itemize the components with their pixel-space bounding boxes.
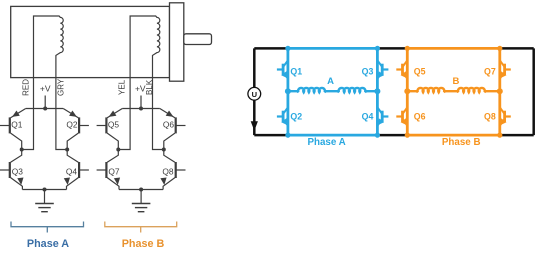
- transistor Q3: [381, 64, 384, 76]
- svg-text:Phase A: Phase A: [27, 238, 69, 250]
- inductor A: [288, 90, 298, 92]
- transistor Q6: [401, 111, 404, 123]
- wire black bottom-left: [254, 134, 288, 137]
- node B-right: [497, 88, 503, 94]
- wire black top-right: [500, 47, 534, 50]
- winding phase A (motor coil): [34, 16, 64, 78]
- svg-text:Q4: Q4: [362, 112, 374, 122]
- svg-text:Q7: Q7: [484, 67, 496, 77]
- transistor Q1: [9, 117, 11, 133]
- node A-left: [20, 148, 24, 152]
- bridge Phase A frame: [288, 48, 378, 135]
- svg-text:Q3: Q3: [362, 67, 374, 77]
- wire RED to node: [22, 78, 34, 150]
- wire black bottom-right: [500, 134, 534, 137]
- current direction arrow: [251, 121, 258, 131]
- ground phase A: [22, 190, 66, 204]
- svg-text:Q2: Q2: [66, 119, 78, 129]
- bridge Phase B frame: [407, 48, 500, 135]
- stepper motor body: [11, 6, 170, 77]
- svg-text:Q3: Q3: [12, 166, 24, 176]
- +V rail phase A: [26, 96, 64, 109]
- svg-text:Q8: Q8: [162, 166, 174, 176]
- svg-text:B: B: [452, 76, 459, 87]
- svg-text:GRY: GRY: [57, 78, 66, 96]
- transistor Q8: [175, 162, 177, 178]
- wire black left side: [253, 48, 256, 135]
- brace phase A: [11, 222, 84, 233]
- transistor Q8: [503, 111, 506, 123]
- transistor Q3: [9, 162, 11, 178]
- svg-text:Phase B: Phase B: [442, 137, 481, 148]
- transistor Q5: [401, 64, 404, 76]
- motor end cap: [170, 3, 184, 81]
- node B-right: [162, 148, 166, 152]
- transistor Q4: [381, 111, 384, 123]
- svg-text:A: A: [327, 76, 334, 87]
- voltage source U: [248, 87, 261, 100]
- corner nodes bridge Phase B: [405, 46, 410, 51]
- transistor Q7: [503, 64, 506, 76]
- wire black right side: [532, 48, 535, 135]
- ground phase B: [119, 190, 163, 204]
- wire black top-middle: [377, 47, 407, 50]
- svg-text:U: U: [252, 90, 257, 99]
- transistor Q4: [78, 162, 80, 178]
- node B-left: [404, 88, 410, 94]
- corner nodes bridge Phase A: [285, 46, 290, 51]
- svg-text:RED: RED: [22, 79, 31, 96]
- transistor Q7: [105, 162, 107, 178]
- wire BLK to node: [153, 78, 164, 150]
- node A-right: [65, 148, 69, 152]
- wire black top-left: [254, 47, 288, 50]
- +V rail phase B: [122, 96, 160, 109]
- wire GRY to node: [56, 78, 67, 150]
- motor shaft: [184, 34, 212, 45]
- svg-text:+V: +V: [135, 84, 146, 94]
- svg-text:YEL: YEL: [117, 79, 126, 95]
- svg-text:Q8: Q8: [484, 112, 496, 122]
- svg-text:Q2: Q2: [290, 112, 302, 122]
- node B-left: [116, 148, 120, 152]
- wire black bottom-middle: [377, 134, 407, 137]
- node A-left: [285, 88, 291, 94]
- svg-text:Phase A: Phase A: [307, 137, 345, 148]
- svg-text:Q4: Q4: [66, 166, 78, 176]
- winding phase B (motor coil): [130, 16, 160, 78]
- brace phase B: [105, 222, 177, 233]
- svg-text:Q7: Q7: [108, 166, 120, 176]
- transistor Q2: [282, 111, 285, 123]
- svg-text:Q5: Q5: [414, 67, 426, 77]
- svg-text:Q1: Q1: [290, 67, 302, 77]
- transistor Q6: [175, 117, 177, 133]
- svg-text:+V: +V: [40, 84, 51, 94]
- transistor Q5: [105, 117, 107, 133]
- node A-right: [374, 88, 380, 94]
- svg-text:Q1: Q1: [11, 119, 23, 129]
- svg-text:Q6: Q6: [414, 112, 426, 122]
- inductor B: [407, 90, 417, 92]
- svg-text:Q6: Q6: [163, 119, 175, 129]
- transistor Q1: [282, 64, 285, 76]
- svg-text:Phase B: Phase B: [122, 238, 165, 250]
- transistor Q2: [78, 117, 80, 133]
- svg-text:Q5: Q5: [108, 119, 120, 129]
- wire YEL to node: [118, 78, 130, 150]
